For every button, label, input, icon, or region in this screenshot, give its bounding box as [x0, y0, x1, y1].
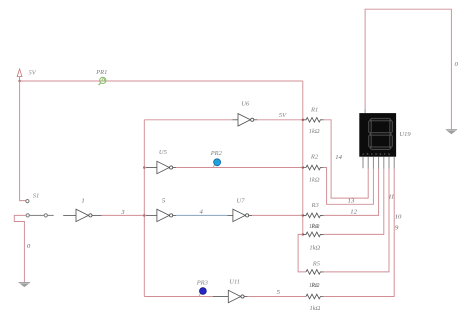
wire net 3	[102, 214, 145, 216]
probe PR1	[99, 77, 106, 85]
svg-text:5V: 5V	[279, 112, 287, 119]
op U6 inverter	[232, 114, 257, 126]
resistor R5	[306, 270, 324, 275]
wire R3 to pin D	[324, 169, 379, 216]
svg-text:0: 0	[27, 243, 31, 250]
segment d	[370, 147, 390, 150]
svg-text:R2: R2	[310, 153, 319, 160]
svg-text:R3: R3	[311, 202, 320, 209]
inverter gate (ref 5)	[146, 209, 176, 221]
probe PR2	[213, 159, 220, 167]
wire R1 to pin B	[324, 120, 369, 198]
resistor R4	[303, 232, 324, 237]
junction R4	[302, 233, 305, 236]
wire net 4 (blue)	[176, 214, 227, 216]
junction R3	[302, 214, 305, 217]
svg-text:4: 4	[200, 209, 204, 216]
switch S1	[26, 200, 54, 217]
svg-text:14: 14	[335, 154, 342, 161]
segment c	[390, 135, 393, 148]
junction at U5 row	[143, 166, 146, 169]
wire R4 to pin E	[324, 169, 384, 235]
svg-text:PR1: PR1	[95, 69, 107, 76]
svg-text:13: 13	[348, 198, 355, 205]
ground GND left	[19, 283, 31, 288]
wire U11 out net 5	[248, 296, 306, 298]
svg-text:10: 10	[395, 213, 402, 220]
svg-text:1kΩ: 1kΩ	[309, 128, 320, 135]
pin leads A-G	[363, 157, 394, 169]
pin CK stub	[364, 109, 366, 113]
wire R4 jog to R5	[298, 234, 306, 272]
svg-text:1kΩ: 1kΩ	[309, 177, 320, 184]
svg-text:9: 9	[395, 225, 399, 232]
svg-text:PR3: PR3	[196, 280, 209, 287]
wire left vertical bus	[143, 120, 145, 297]
svg-text:U6: U6	[241, 101, 250, 108]
wire U7 out to rail	[252, 214, 303, 216]
svg-text:U11: U11	[229, 279, 240, 286]
svg-text:PR2: PR2	[210, 150, 223, 157]
wire R2 to pin C	[324, 168, 374, 205]
svg-text:R6: R6	[310, 282, 319, 289]
svg-text:S1: S1	[33, 193, 40, 200]
svg-text:0: 0	[455, 61, 459, 68]
power source V1 5V symbol	[17, 69, 22, 81]
probe PR3	[199, 288, 206, 296]
svg-text:3: 3	[120, 209, 125, 216]
inverter gate (ref 1)	[63, 209, 101, 221]
segment b	[390, 120, 393, 133]
resistor R3	[303, 213, 324, 218]
wire bottom row to U11	[144, 296, 213, 298]
resistor R6	[306, 294, 324, 299]
node junction at source	[18, 80, 21, 83]
wire 5V rail vertical	[302, 81, 304, 234]
svg-text:5: 5	[277, 289, 281, 296]
ground GND right	[446, 130, 457, 135]
wire U6 out to rail	[257, 119, 302, 121]
wire 5V down to switch	[20, 81, 26, 201]
svg-text:5V: 5V	[29, 69, 37, 76]
body	[359, 113, 396, 157]
wire R6 to pin G	[324, 169, 395, 297]
junction R2	[302, 166, 305, 169]
segment a	[370, 118, 390, 121]
inverter U11	[213, 290, 248, 302]
inverter U7	[227, 209, 252, 221]
resistor R2	[303, 165, 324, 170]
seven-segment display U19	[359, 109, 396, 169]
resistor R1	[303, 118, 324, 123]
svg-text:1kΩ: 1kΩ	[310, 305, 321, 312]
wire 5V top rail horizontal	[20, 80, 303, 82]
wire U5 out to rail	[176, 167, 303, 169]
svg-text:ABCDEFG.: ABCDEFG.	[362, 152, 396, 156]
svg-text:R5: R5	[312, 261, 321, 268]
svg-text:U5: U5	[159, 149, 168, 156]
segment f	[369, 120, 372, 133]
wire display common to ground loop	[365, 9, 451, 129]
junction R1	[302, 119, 305, 122]
svg-text:R1: R1	[310, 107, 318, 114]
inverter U5	[146, 161, 176, 173]
junction at gate row	[143, 214, 146, 217]
svg-text:U19: U19	[399, 131, 411, 138]
segment g	[370, 133, 390, 136]
wire switch to ground jog	[14, 215, 26, 282]
svg-text:5: 5	[162, 198, 166, 205]
svg-text:U7: U7	[237, 198, 246, 205]
svg-text:12: 12	[350, 209, 357, 216]
segment e	[369, 135, 372, 148]
wire R5 to pin F	[324, 169, 389, 272]
wire to U6	[144, 119, 232, 121]
svg-text:1: 1	[81, 197, 84, 204]
svg-text:1kΩ: 1kΩ	[309, 245, 320, 252]
svg-text:R4: R4	[310, 223, 319, 230]
